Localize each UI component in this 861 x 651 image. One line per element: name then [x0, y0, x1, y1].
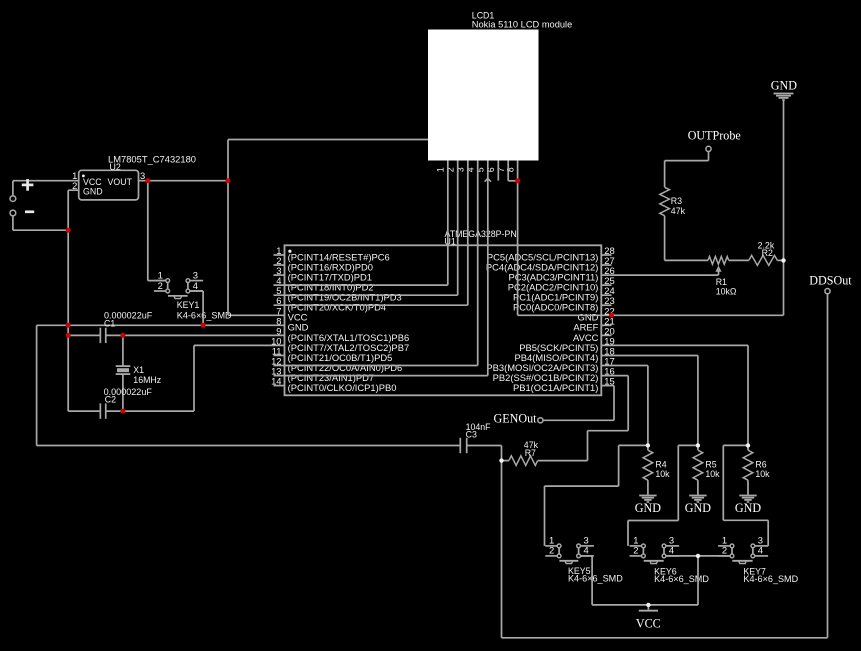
- svg-text:C1: C1: [104, 318, 115, 328]
- svg-text:R1: R1: [716, 277, 727, 287]
- svg-text:47k: 47k: [671, 206, 686, 216]
- svg-text:OUTProbe: OUTProbe: [688, 129, 741, 143]
- svg-text:K4-6×6_SMD: K4-6×6_SMD: [568, 574, 623, 584]
- svg-text:C2: C2: [105, 394, 116, 404]
- svg-text:2: 2: [549, 545, 554, 556]
- svg-text:4: 4: [193, 280, 198, 291]
- svg-text:2: 2: [158, 280, 163, 291]
- svg-text:C3: C3: [466, 430, 477, 440]
- svg-text:KEY1: KEY1: [177, 300, 200, 310]
- svg-text:16MHz: 16MHz: [133, 375, 161, 385]
- svg-text:VCC: VCC: [636, 616, 661, 630]
- svg-text:GND: GND: [83, 187, 103, 197]
- svg-text:U2: U2: [110, 162, 121, 172]
- svg-text:R2: R2: [762, 248, 773, 258]
- svg-text:X1: X1: [133, 365, 144, 375]
- svg-text:(PCINT0/CLKO/ICP1)PB0: (PCINT0/CLKO/ICP1)PB0: [288, 382, 397, 393]
- svg-text:8: 8: [505, 167, 515, 172]
- svg-text:K4-6×6_SMD: K4-6×6_SMD: [177, 310, 232, 320]
- svg-text:3: 3: [140, 170, 145, 181]
- svg-text:10kΩ: 10kΩ: [716, 287, 737, 297]
- svg-text:4: 4: [669, 545, 674, 556]
- svg-text:K4-6×6_SMD: K4-6×6_SMD: [654, 574, 709, 584]
- svg-text:GND: GND: [771, 79, 797, 93]
- svg-text:10k: 10k: [705, 469, 720, 479]
- svg-text:VCC: VCC: [83, 177, 102, 187]
- svg-text:4: 4: [758, 545, 763, 556]
- svg-text:DDSOut: DDSOut: [809, 273, 852, 287]
- svg-text:1: 1: [436, 167, 446, 172]
- svg-text:VOUT: VOUT: [108, 177, 133, 187]
- svg-text:Nokia 5110 LCD module: Nokia 5110 LCD module: [472, 20, 573, 30]
- svg-text:R3: R3: [671, 196, 682, 206]
- svg-text:K4-6×6_SMD: K4-6×6_SMD: [743, 574, 798, 584]
- svg-text:4: 4: [583, 545, 588, 556]
- svg-text:14: 14: [271, 376, 281, 387]
- svg-text:1: 1: [158, 269, 163, 280]
- svg-text:LM7805T_C7432180: LM7805T_C7432180: [108, 155, 196, 165]
- svg-text:GND: GND: [635, 501, 661, 515]
- svg-text:15: 15: [604, 376, 614, 387]
- svg-text:GENOut: GENOut: [494, 412, 538, 426]
- svg-text:GND: GND: [685, 501, 711, 515]
- svg-text:10k: 10k: [655, 469, 670, 479]
- svg-text:10k: 10k: [755, 469, 770, 479]
- svg-text:PB1(OC1A/PCINT1): PB1(OC1A/PCINT1): [513, 382, 598, 393]
- svg-text:2: 2: [633, 545, 638, 556]
- svg-text:2: 2: [72, 180, 77, 191]
- svg-text:2: 2: [722, 545, 727, 556]
- svg-text:R7: R7: [525, 448, 536, 458]
- svg-text:U1: U1: [445, 236, 456, 246]
- svg-text:GND: GND: [735, 501, 761, 515]
- svg-text:3: 3: [193, 269, 198, 280]
